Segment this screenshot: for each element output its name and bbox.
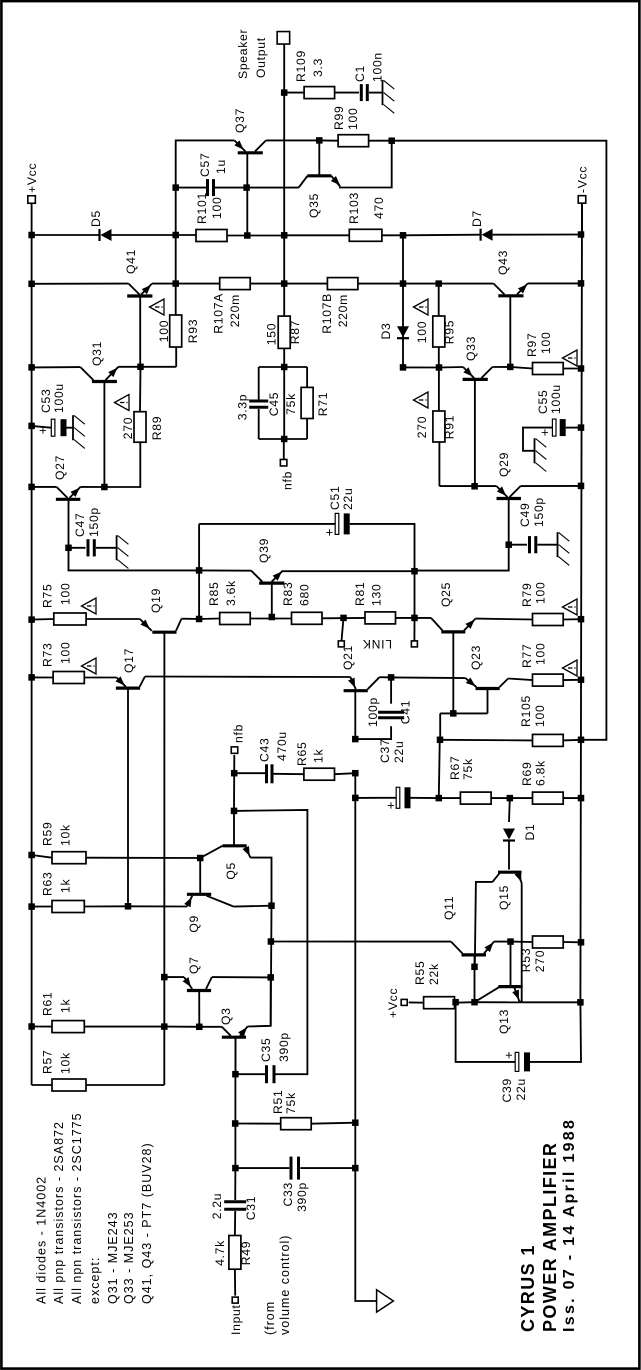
transistor Q21 (350, 677, 355, 689)
svg-text:100: 100 (157, 320, 171, 342)
svg-text:100: 100 (539, 332, 553, 354)
wire R109 to C1 (335, 92, 359, 94)
junction Q27 branch/Q31 base (101, 484, 108, 491)
svg-text:100: 100 (59, 583, 73, 605)
svg-text:Q39: Q39 (257, 538, 271, 563)
transistor Q15 (493, 872, 501, 882)
wire R59 down (86, 857, 200, 859)
capacitor C47 (87, 539, 90, 556)
wire Q23 base stem (487, 689, 489, 714)
wire R107A to output (250, 283, 284, 285)
wire C41 right (390, 677, 392, 703)
svg-text:R85: R85 (207, 582, 221, 606)
wire Q31 base (103, 382, 105, 488)
wire R95 left lead (438, 347, 440, 368)
junction input line/C35 (232, 1071, 239, 1078)
terminal -Vcc (578, 196, 586, 204)
wire Q7 base (198, 991, 200, 1027)
junction R101/Q37 base (244, 232, 251, 239)
junction +Vcc/R75 (28, 616, 34, 623)
wire D1 right (508, 798, 511, 822)
terminal Speaker Output (277, 32, 290, 45)
svg-text:R95: R95 (443, 320, 457, 344)
svg-text:Q29: Q29 (497, 452, 511, 477)
wire R57 to drive line (86, 1084, 164, 1086)
wire D1 to Q15 base (508, 841, 510, 870)
wire Q27 base corner (69, 548, 200, 571)
capacitor C45 (249, 406, 268, 409)
svg-text:All npn transistors - 2SC1775: All npn transistors - 2SC1775 (70, 1112, 84, 1304)
svg-text:R63: R63 (41, 872, 55, 896)
svg-text:Q13: Q13 (497, 1009, 511, 1034)
wire rail to R59 (32, 855, 52, 858)
wire C49 branch (509, 544, 527, 546)
wire Q7 emitter (164, 976, 184, 978)
wire D3 row to R91 row (403, 366, 439, 368)
wire rail to R63 (32, 906, 52, 908)
wire Q5 collector diag (200, 846, 222, 858)
svg-text:R75: R75 (41, 584, 55, 608)
wire C33 top (235, 1167, 289, 1169)
resistor R93 body (170, 315, 182, 347)
wire Q21 collector down (380, 676, 392, 678)
junction R51/Q21 base line (352, 1119, 359, 1126)
svg-text:22k: 22k (427, 963, 441, 985)
transistor Q37 base bar (238, 151, 263, 154)
wire C39 top link (456, 1002, 516, 1062)
junction -rail/R97 (578, 365, 585, 372)
svg-text:Q33 - MJE253: Q33 - MJE253 (122, 1211, 136, 1304)
junction R103/D3 row (400, 232, 407, 239)
terminal nfb output side (280, 459, 287, 466)
wire C51 link (414, 571, 416, 618)
resistor R79 body (533, 614, 564, 626)
wire R63 to Q9 (128, 905, 187, 907)
transistor Q27 (57, 487, 68, 498)
wire LINK stem 1 (342, 618, 344, 641)
svg-text:100: 100 (415, 321, 429, 343)
junction Q11 base (471, 964, 478, 971)
svg-text:470: 470 (372, 197, 386, 219)
wire Q9 base (199, 858, 201, 894)
svg-text:R57: R57 (41, 1050, 55, 1074)
svg-text:Q5: Q5 (224, 862, 238, 880)
junction -rail/R77 (578, 677, 585, 684)
wire vas line upper (199, 569, 251, 571)
svg-text:100n: 100n (371, 52, 385, 82)
svg-text:Q15: Q15 (497, 885, 511, 910)
capacitor C31 (224, 1208, 246, 1211)
transistor Q7 base bar (187, 989, 211, 992)
wire node to R101 (176, 234, 196, 236)
svg-text:470u: 470u (275, 731, 289, 761)
junction nfb/x559 branch (231, 808, 238, 815)
transistor Q27 base bar (56, 498, 80, 501)
wire C45 top right (258, 367, 260, 400)
wire vas node (175, 347, 177, 367)
svg-text:C47: C47 (73, 513, 87, 537)
junction Q21 collector/C41 (388, 674, 395, 681)
warning triangle R89 (115, 395, 130, 411)
junction -rail/C55 (578, 424, 585, 431)
junction R95/branch (435, 280, 442, 287)
warning triangle R77 (563, 660, 578, 676)
junction R59/Q9 base/Q5 collector (197, 855, 204, 862)
svg-text:22u: 22u (514, 1078, 528, 1100)
arrow Q43 emitter (518, 284, 527, 293)
junction R63/Q17 base (125, 903, 132, 910)
svg-text:Q17: Q17 (122, 648, 136, 673)
svg-text:270: 270 (533, 950, 547, 972)
svg-text:All diodes - 1N4002: All diodes - 1N4002 (34, 1176, 48, 1304)
wire C49 to ground (538, 544, 558, 546)
wire to node corner (141, 366, 177, 368)
wire Q5 emitter (250, 858, 271, 906)
resistor R101 body (196, 230, 227, 242)
wire R61 to Q7 base (164, 1026, 199, 1028)
capacitor C35 (265, 1065, 268, 1083)
svg-text:100p: 100p (366, 697, 380, 727)
junction +Vcc/Q27 branch (28, 484, 34, 491)
wire Q41 base (139, 296, 141, 367)
resistor R53 body (533, 936, 564, 948)
wire R103 branch to D7 (403, 234, 481, 237)
wire to R97 (510, 367, 532, 369)
junction Q19/Q27 base link (196, 616, 203, 623)
wire R103 to D3 row (382, 234, 403, 236)
wire Q11 base to R55 node (474, 967, 476, 1002)
transistor Q31 base bar (92, 380, 117, 383)
junction nfb/C43 branch (231, 770, 238, 777)
arrow Q33 emitter (463, 367, 472, 376)
resistor R69 body (533, 792, 564, 804)
svg-text:Q41, Q43 - PT7 (BUV28): Q41, Q43 - PT7 (BUV28) (140, 1142, 154, 1304)
junction +Vcc/C53 (28, 423, 34, 430)
svg-text:LINK: LINK (362, 637, 392, 651)
svg-text:75k: 75k (284, 393, 298, 415)
junction node/R101 branch (172, 232, 179, 239)
wire Q27 base (68, 499, 70, 548)
wire R99 to bottom link (369, 141, 607, 740)
wire R53 to -rail (563, 941, 581, 943)
svg-text:C55: C55 (536, 390, 550, 414)
diode D3 (397, 337, 409, 339)
svg-text:270: 270 (121, 417, 135, 439)
wire Q29 base (508, 499, 510, 545)
junction drive/Q7 emitter (161, 974, 168, 981)
svg-text:All pnp transistors - 2SA872: All pnp transistors - 2SA872 (52, 1121, 66, 1304)
resistor R49 body (229, 1236, 241, 1270)
svg-text:Q35: Q35 (307, 193, 321, 218)
wire Q21 base line (354, 773, 356, 1168)
wire R89 left lead (104, 442, 140, 487)
resistor R67 body (460, 792, 491, 804)
junction -rail/Q29 (578, 483, 585, 490)
resistor R89 body (134, 412, 146, 443)
svg-text:C57: C57 (198, 153, 212, 177)
wire C33 bottom (300, 1167, 355, 1169)
terminal +Vcc 2 (401, 999, 407, 1005)
wire +Vcc rail (31, 204, 33, 1085)
svg-text:C33: C33 (281, 1182, 295, 1206)
svg-text:except:: except: (88, 1257, 102, 1304)
wire node to C57 (176, 187, 206, 189)
junction -rail/Q43 (578, 280, 585, 287)
svg-text:volume control): volume control) (278, 1235, 292, 1335)
svg-text:4.7k: 4.7k (213, 1240, 227, 1266)
svg-text:R91: R91 (443, 415, 457, 439)
wire Q13 base (510, 942, 512, 985)
svg-text:R83: R83 (281, 582, 295, 606)
svg-text:390p: 390p (277, 1032, 291, 1062)
wire C51 bottom (350, 524, 415, 571)
ground at C49 (557, 532, 559, 557)
wire R69 to -rail (563, 797, 581, 799)
junction +Vcc/R61 (28, 1023, 34, 1030)
ground at C1 (382, 80, 384, 105)
junction +Vcc/R73 (28, 674, 34, 681)
junction R83/R81 LINK1 (340, 615, 347, 622)
svg-text:R79: R79 (520, 583, 534, 607)
svg-text:R87: R87 (288, 320, 302, 344)
wire Q39 base (271, 583, 273, 616)
svg-text:R73: R73 (41, 643, 55, 667)
svg-text:+: + (383, 801, 398, 809)
svg-text:R93: R93 (186, 319, 200, 343)
arrow Q5 emitter (242, 846, 249, 856)
wire nfb line (233, 755, 235, 811)
svg-text:390p: 390p (295, 1182, 309, 1212)
svg-text:100: 100 (533, 705, 547, 727)
transistor Q7 (184, 977, 192, 989)
junction R61 line/Q7 base (196, 1024, 203, 1031)
junction +Vcc/Q31 branch (28, 364, 34, 371)
wire output rail (283, 439, 285, 460)
wire input to R49 (234, 1269, 236, 1295)
capacitor C55 thick (552, 419, 556, 436)
ground at C47 (116, 535, 118, 560)
wire Q43 base (509, 296, 511, 367)
arrow Q31 emitter (108, 368, 117, 377)
transistor Q35 (299, 176, 308, 188)
transistor Q43 base bar (498, 294, 523, 297)
wire R89 right lead (139, 367, 142, 412)
wire rail to C55 (566, 427, 581, 429)
wire +Vcc2 to R55 (409, 1001, 424, 1003)
svg-text:C51: C51 (328, 486, 342, 510)
transistor Q9 base bar (187, 893, 211, 896)
junction Q27 base/C47 (65, 545, 72, 552)
svg-text:+: + (322, 528, 337, 536)
wire input line to Q3 (234, 1037, 236, 1074)
wire R55 node down (475, 1001, 522, 1003)
wire Q17 collector down (145, 676, 351, 679)
svg-text:100u: 100u (549, 384, 563, 414)
transistor Q35 base bar (307, 174, 331, 177)
wire Q41 emitter to node (152, 283, 176, 285)
wire Q21 base stem (354, 691, 356, 739)
wire rail to C53 (32, 426, 51, 428)
transistor Q39 base bar (259, 581, 284, 584)
wire Q25 base stem (452, 632, 454, 714)
wire R105 top (440, 739, 533, 742)
junction +Vcc/R59 (28, 852, 34, 859)
wire R71 bottom right (306, 367, 308, 387)
wire R95 right lead (438, 284, 440, 316)
wire Q7 collector (212, 976, 271, 978)
transistor Q41 (129, 284, 140, 295)
wire rail to Q27 collector (32, 486, 57, 488)
junction input line/C33 (232, 1165, 239, 1172)
arrow Q37 emitter (234, 140, 243, 149)
arrow Q13 emitter (512, 990, 519, 1000)
svg-text:C53: C53 (39, 389, 53, 413)
svg-text:+: + (35, 426, 50, 434)
wire C53 to ground (67, 427, 74, 429)
svg-text:100u: 100u (52, 383, 66, 413)
svg-text:R101: R101 (195, 192, 209, 224)
diode D7 (480, 229, 482, 241)
svg-text:75k: 75k (461, 758, 475, 780)
svg-text:100: 100 (346, 108, 360, 130)
wire tee to R105 corner (439, 713, 441, 739)
wire R61 to Q3 (199, 1026, 222, 1028)
wire C37 top (355, 797, 396, 799)
wire Q27 base link (198, 524, 200, 619)
wire C41 left (355, 726, 391, 739)
svg-text:130: 130 (370, 584, 384, 606)
svg-text:100: 100 (534, 643, 548, 665)
svg-text:Q31 - MJE243: Q31 - MJE243 (106, 1211, 120, 1304)
wire to R85 (199, 618, 220, 621)
resistor R91 body (433, 411, 445, 442)
warning triangle R93 (150, 299, 165, 315)
wire Q15 collector link (475, 882, 493, 967)
wire to R53 (511, 941, 533, 943)
resistor R71 body (301, 387, 313, 418)
svg-text:22u: 22u (392, 741, 406, 763)
wire Q13 emitter branch (522, 1001, 581, 1003)
wire Q35 emitter (340, 141, 392, 188)
wire Q43 emitter to -rail (528, 282, 581, 284)
junction R81/C51 wire (411, 615, 418, 622)
arrow Q21 emitter (348, 678, 355, 688)
wire Q19 collector down (182, 618, 200, 620)
wire Q3 base (235, 1037, 237, 1074)
wire to Q35 collector (247, 187, 299, 189)
warning triangle R95 (414, 299, 429, 315)
svg-text:Input: Input (229, 1304, 243, 1335)
junction Q29 base/C49 (505, 541, 512, 548)
svg-text:+Vcc: +Vcc (386, 988, 400, 1018)
resistor R57 body (52, 1079, 86, 1091)
wire drive line (163, 634, 165, 1085)
svg-text:+: + (501, 1051, 516, 1059)
junction input line/R51 (232, 1120, 239, 1127)
wire C39 bottom (530, 1002, 581, 1062)
resistor R51 body (281, 1118, 312, 1130)
wire R83 to R81 (322, 617, 365, 619)
junction -rail/R79 (578, 616, 585, 623)
wire rail to R73 (32, 676, 53, 678)
wire R75 to Q19 (86, 618, 140, 620)
svg-text:C1: C1 (353, 65, 367, 82)
wire C51 branch (199, 523, 335, 525)
svg-text:R107A: R107A (212, 293, 226, 334)
wire C31 to node (234, 1168, 236, 1200)
svg-text:Q19: Q19 (149, 588, 163, 613)
wire Q29 branch upper (439, 485, 496, 487)
svg-text:150p: 150p (532, 497, 546, 527)
wire Q29 collector to -rail (521, 485, 582, 487)
transistor Q3 (222, 1027, 231, 1036)
wire Q27 emitter down (81, 486, 105, 488)
resistor R85 body (220, 613, 251, 625)
junction R67/R69/D1 (507, 795, 514, 802)
wire node to Q33 emitter (439, 366, 463, 369)
warning triangle R91 (414, 392, 429, 408)
junction node/Q41 emitter (172, 280, 179, 287)
wire Q19 base stem (163, 632, 165, 634)
capacitor C57 (206, 179, 209, 196)
wire Q37 base (246, 153, 248, 236)
wire C37 to R67 (411, 797, 439, 799)
svg-text:C43: C43 (258, 738, 272, 762)
svg-text:100: 100 (210, 197, 224, 219)
junction tank left (281, 436, 288, 443)
capacitor C41 (378, 716, 404, 719)
svg-text:220m: 220m (228, 294, 242, 327)
transistor Q23 base bar (476, 687, 500, 690)
wire C43 to R65 (274, 773, 304, 775)
wire Q11 emitter down (494, 941, 511, 943)
svg-text:C45: C45 (267, 392, 281, 416)
wire C57 to Q37 base (215, 187, 247, 189)
svg-text:220m: 220m (336, 294, 350, 327)
wire LINK stem 2 (413, 618, 415, 641)
arrow Q3 emitter (238, 1027, 247, 1037)
resistor R99 body (338, 135, 369, 147)
wire C35 top (235, 1073, 265, 1075)
svg-text:Q31: Q31 (90, 341, 104, 366)
warning triangle R79 (563, 599, 578, 615)
junction output/R103 branch (281, 232, 288, 239)
svg-text:Q37: Q37 (233, 108, 247, 133)
wire R71 bottom left (306, 419, 308, 440)
junction tank right (281, 364, 288, 371)
arrow Q11 emitter (484, 943, 493, 953)
transistor Q37 (234, 140, 245, 151)
wire R85 to R83 (250, 618, 291, 620)
wire node R93 to corner (176, 140, 235, 315)
wire Q15 emitter row (521, 883, 523, 1002)
svg-text:2.2u: 2.2u (210, 1193, 224, 1220)
svg-text:R97: R97 (525, 333, 539, 357)
svg-text:R109: R109 (294, 50, 308, 82)
transistor Q25 base bar (441, 630, 465, 633)
svg-text:C35: C35 (259, 1038, 273, 1062)
resistor R75 body (54, 613, 86, 625)
junction tail/Q11 branch (268, 938, 275, 945)
wire Q31 emitter down (118, 366, 140, 368)
wire speaker stem (282, 38, 284, 44)
junction +Vcc/R63 (28, 903, 34, 910)
junction tail/Q7 (267, 974, 274, 981)
wire Q13 emitter (519, 1001, 521, 1002)
svg-text:Q9: Q9 (187, 915, 201, 933)
svg-text:R67: R67 (448, 756, 462, 780)
junction R67 top (436, 795, 443, 802)
